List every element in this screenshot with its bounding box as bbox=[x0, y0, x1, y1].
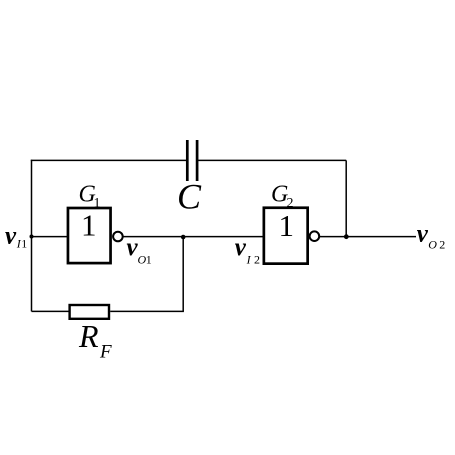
label vO2 bbox=[417, 220, 446, 251]
svg-text:O: O bbox=[428, 237, 437, 251]
capacitor C plates bbox=[187, 140, 197, 181]
wire bottom left (vI1 rail to RF) bbox=[32, 310, 69, 312]
svg-text:1: 1 bbox=[81, 208, 97, 243]
svg-text:I: I bbox=[246, 252, 252, 266]
svg-text:F: F bbox=[99, 341, 112, 362]
wire top horizontal left segment bbox=[31, 159, 186, 161]
svg-text:2: 2 bbox=[254, 252, 260, 266]
svg-text:C: C bbox=[177, 177, 202, 217]
wire top horizontal right segment bbox=[198, 159, 346, 161]
svg-text:2: 2 bbox=[439, 237, 445, 251]
wire G1 input bbox=[32, 236, 68, 238]
node vO1 junction dot bbox=[181, 235, 186, 240]
gate U1 (inverter G1) box bbox=[68, 208, 111, 263]
svg-text:1: 1 bbox=[279, 208, 295, 243]
wire right vertical (top wire down to vO2 node) bbox=[345, 160, 347, 236]
label RF bbox=[78, 318, 112, 362]
label G1 bbox=[79, 182, 101, 212]
gate G2 output bubble bbox=[310, 231, 320, 241]
svg-text:v: v bbox=[235, 234, 247, 261]
resistor RF box bbox=[70, 305, 109, 319]
wire G2 output bbox=[320, 236, 416, 238]
wire feedback vertical (vO1 down to RF) bbox=[182, 237, 184, 312]
svg-text:R: R bbox=[78, 318, 99, 354]
node vI1 junction dot bbox=[30, 235, 34, 239]
svg-text:1: 1 bbox=[146, 252, 152, 266]
svg-text:1: 1 bbox=[21, 236, 27, 250]
label vI2 bbox=[235, 234, 260, 266]
gate U2 (inverter G2) box bbox=[264, 208, 308, 264]
label vO1 bbox=[127, 234, 152, 266]
wire left vertical (vI1 rail) bbox=[31, 160, 33, 312]
gate G1 output bubble bbox=[113, 232, 123, 242]
wire G1 output to G2 input bbox=[123, 236, 262, 238]
label G2 bbox=[271, 181, 294, 211]
svg-text:v: v bbox=[5, 222, 17, 249]
wire RF right to feedback vertical bbox=[110, 310, 184, 312]
label vI1 bbox=[5, 222, 27, 250]
node vO2 junction dot bbox=[344, 234, 349, 239]
svg-text:v: v bbox=[417, 220, 429, 247]
